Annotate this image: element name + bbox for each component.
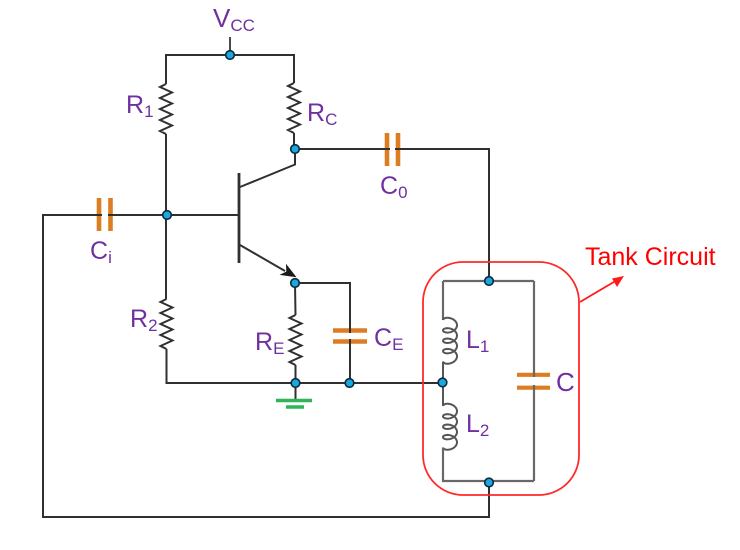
svg-text:RE: RE (255, 328, 284, 358)
svg-text:VCC: VCC (213, 3, 255, 35)
tank inner loop right wire lower (533, 385, 535, 481)
node tank bottom (485, 478, 494, 487)
wire collector node to C0 left plate (294, 148, 390, 150)
svg-text:C: C (556, 367, 575, 397)
inductor L1 (443, 318, 489, 364)
wire emitter node to CE top (295, 283, 350, 333)
wire Vcc stub (229, 37, 231, 55)
tank inner loop right wire upper (533, 281, 535, 377)
svg-text:Tank Circuit: Tank Circuit (585, 243, 716, 271)
resistor R1 (126, 84, 172, 134)
node emitter (291, 279, 300, 288)
power label VCC (213, 3, 255, 35)
capacitor C0 (380, 133, 408, 202)
node RE ground (291, 379, 300, 388)
capacitor Ci (90, 198, 112, 267)
tank inner loop top wire (443, 280, 534, 282)
wire RE bottom to ground node (295, 365, 297, 383)
svg-text:Ci: Ci (90, 237, 112, 267)
svg-text:L1: L1 (466, 326, 489, 356)
svg-text:L2: L2 (466, 410, 489, 440)
wire tap node to L2 top (442, 383, 444, 406)
wire left rail upper (top rail to R1) (165, 54, 167, 84)
transistor Q1 collector lead (240, 149, 295, 187)
node base/bias (163, 211, 172, 220)
wire tank bottom node to feedback (488, 481, 490, 517)
wire base (node to base bar) (167, 214, 238, 216)
svg-text:C0: C0 (380, 172, 408, 202)
wire C0 right plate to tank top (395, 149, 489, 281)
wire top rail (166, 54, 294, 56)
node collector (291, 145, 300, 154)
svg-text:RC: RC (307, 99, 337, 129)
wire right rail upper (top rail to RC) (293, 54, 295, 83)
node CE bottom (345, 379, 354, 388)
tank circuit red rounded box (423, 262, 579, 495)
wire left rail lower + bottom rail to tank tap (167, 349, 443, 383)
resistor RC (288, 83, 337, 133)
wire Ci right plate to base node (108, 214, 167, 216)
wire left rail mid (R1 to R2) (165, 134, 167, 299)
node Vcc (226, 51, 235, 60)
transistor Q1 emitter lead with arrow (240, 245, 297, 277)
resistor RE (255, 315, 302, 365)
capacitor C (517, 367, 575, 397)
wire L1 bottom to tap node (442, 362, 444, 384)
inductor L2 (443, 404, 489, 450)
wire feedback: left loop from Ci left plate down and across bottom to tank bottom (43, 215, 489, 517)
svg-text:R2: R2 (130, 305, 158, 335)
ground (276, 383, 312, 407)
svg-text:R1: R1 (126, 91, 154, 121)
capacitor CE (333, 324, 403, 354)
annotation label Tank Circuit (585, 243, 716, 271)
svg-text:CE: CE (374, 324, 403, 354)
wire CE bottom to bottom rail (349, 339, 351, 383)
node tank top (485, 277, 494, 286)
resistor R2 (130, 299, 173, 349)
wire RC to collector node (293, 133, 295, 149)
tank inner loop left lower + bottom wire (443, 448, 534, 482)
transistor Q1 base bar (238, 173, 241, 263)
tank inner loop left upper wire (442, 281, 444, 320)
wire emitter node to RE (294, 283, 297, 315)
annotation arrow (580, 276, 624, 302)
node tank tap (438, 378, 447, 387)
